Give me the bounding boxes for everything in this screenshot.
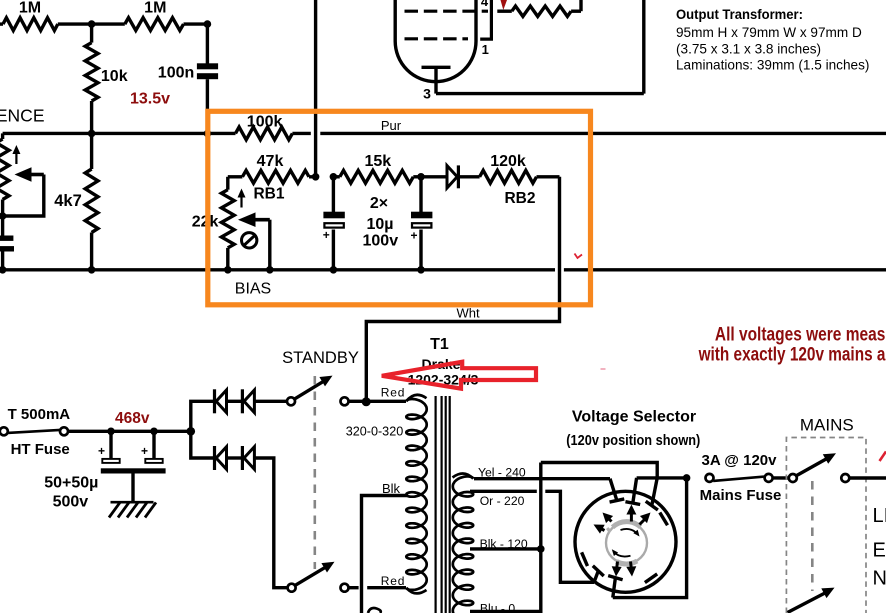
svg-text:Output Transformer:: Output Transformer: (676, 6, 803, 22)
svg-text:Laminations: 39mm (1.5 inches): Laminations: 39mm (1.5 inches) (676, 58, 869, 73)
wire selector right vertical (613, 478, 687, 598)
wire fuse to mains switch (772, 476, 789, 480)
resistor 47k RB1 (228, 175, 243, 178)
transformer core (435, 396, 437, 613)
svg-text:MAINS: MAINS (800, 416, 854, 435)
fuse mains (706, 474, 714, 482)
wire diode rail top (191, 401, 215, 431)
svg-text:Blu - 0: Blu - 0 (480, 602, 515, 613)
capacitor 10u (right) (419, 177, 422, 212)
junction dot selector/fuse (683, 474, 691, 482)
wire HT rail (68, 430, 191, 433)
pot REF up arrow (15, 150, 17, 164)
svg-text:BIAS: BIAS (235, 281, 271, 298)
wire tube-grid drop to bias node (314, 0, 317, 177)
selector pin2 (633, 478, 637, 503)
capacitor left-edge (0, 236, 13, 241)
svg-text:Red: Red (381, 574, 405, 588)
BIAS group orange box (208, 111, 591, 304)
svg-text:+: + (410, 229, 417, 243)
svg-text:15k: 15k (364, 153, 391, 170)
wire Pur rail (3, 132, 236, 135)
wire Yel-240 (474, 477, 610, 480)
svg-text:100k: 100k (247, 114, 283, 131)
diode bias (421, 175, 447, 178)
junction dot Blk-120 (537, 545, 545, 553)
svg-text:320-0-320: 320-0-320 (346, 425, 403, 439)
wire Red1 lead (370, 400, 406, 403)
selector ring dashes (660, 512, 668, 525)
svg-text:2×: 2× (370, 195, 388, 212)
svg-text:+: + (141, 444, 148, 458)
svg-text:1M: 1M (19, 0, 41, 17)
node junction top 100n (204, 20, 212, 28)
capacitor 50+50u (109, 431, 112, 458)
diode D1 (213, 389, 216, 413)
switch standby pole1 (287, 397, 295, 405)
svg-text:1M: 1M (144, 0, 166, 17)
selector rotor arrows (630, 511, 633, 522)
svg-text:STANDBY: STANDBY (282, 349, 359, 367)
svg-text:RB2: RB2 (504, 190, 535, 207)
junction dot Pur/100n (under orange) (204, 130, 212, 138)
selector pin1 (Yel) (610, 479, 617, 501)
svg-text:3: 3 (423, 86, 431, 102)
svg-text:+: + (323, 228, 330, 242)
wire pin3 to right frame (436, 92, 644, 95)
wire cap to ground (131, 474, 134, 502)
wire Or-220 (470, 490, 537, 493)
svg-text:Blk - 120: Blk - 120 (480, 537, 528, 551)
svg-text:HT Fuse: HT Fuse (11, 441, 70, 458)
wire diode rail bottom (191, 431, 215, 458)
pot 22k wiper arrow (254, 218, 270, 222)
svg-text:Red: Red (381, 386, 405, 400)
red tick in bias box (575, 254, 583, 259)
svg-text:Wht: Wht (456, 305, 480, 320)
svg-text:100v: 100v (363, 233, 399, 250)
node wiper/bottom (0, 212, 6, 220)
svg-text:T1: T1 (430, 336, 449, 353)
mains dashed box (786, 438, 866, 613)
wire Blk-120 (470, 547, 541, 550)
junction dot bottom rail (330, 266, 338, 274)
svg-text:10k: 10k (101, 68, 128, 85)
svg-text:EARTH: EARTH (873, 540, 886, 562)
svg-text:1: 1 (482, 42, 489, 57)
resistor 120k RB2 (480, 170, 537, 183)
gang dashes standby (313, 376, 316, 569)
switch standby pole2 (288, 584, 296, 592)
diode D2 (241, 389, 244, 413)
tube cathode (422, 66, 451, 69)
junction dots HT (107, 428, 115, 436)
resistor 100k (236, 127, 293, 140)
svg-text:Voltage Selector: Voltage Selector (572, 408, 696, 425)
pot 22k up arrow (240, 194, 242, 208)
wire selector top (541, 463, 657, 478)
selector rotor inner circle (606, 522, 647, 563)
ground chassis (111, 501, 154, 504)
tube grid1 dashed (405, 10, 489, 13)
selector rotation arrows (621, 529, 639, 535)
svg-text:50+50µ: 50+50µ (44, 475, 98, 492)
svg-text:with exactly 120v mains applie: with exactly 120v mains applied (698, 344, 886, 365)
fuse HT (0, 427, 8, 435)
potentiometer REF (left edge) (1, 133, 4, 139)
wire selector left vertical (539, 463, 542, 613)
wire standby to T1 (348, 400, 363, 403)
svg-text:NEUT: NEUT (873, 568, 886, 590)
svg-text:All voltages were measured: All voltages were measured (715, 325, 886, 346)
junction dot T1 red (362, 397, 371, 406)
junction dot bottom rail (417, 266, 425, 274)
red tick mains corner (880, 452, 886, 462)
node junction top-left (88, 20, 96, 28)
svg-text:100n: 100n (158, 65, 194, 82)
resistor R 10k (90, 24, 93, 42)
partial winding curl bottom edge (368, 608, 381, 613)
svg-text:10µ: 10µ (366, 216, 393, 233)
junction dot bias B (330, 173, 338, 181)
diode D3 (213, 446, 216, 470)
resistor 15k (340, 170, 414, 183)
svg-text:RB1: RB1 (253, 185, 284, 202)
red tick near pin4 (501, 0, 508, 10)
wire wiper to bottom rail (268, 220, 271, 270)
svg-text:95mm H x 79mm W x 97mm D: 95mm H x 79mm W x 97mm D (676, 25, 862, 40)
transformer T1 secondary winding (406, 399, 426, 590)
tube grid2 dashed (405, 37, 469, 40)
junction dot bottom rail (266, 266, 274, 274)
svg-text:120k: 120k (490, 153, 526, 170)
potentiometer 22k (226, 177, 229, 190)
junction dot bottom rail (88, 266, 96, 274)
wire Blk center tap (362, 496, 409, 613)
svg-text:Blk: Blk (382, 481, 401, 496)
svg-text:T 500mA: T 500mA (8, 406, 71, 423)
gang dashes mains (811, 481, 814, 591)
svg-text:3A @ 120v: 3A @ 120v (702, 452, 778, 469)
svg-text:22k: 22k (192, 214, 219, 231)
selector rotary circle (575, 491, 676, 592)
wire top rail y=24 (0, 22, 3, 25)
svg-text:(3.75 x 3.1 x 3.8 inches): (3.75 x 3.1 x 3.8 inches) (676, 42, 821, 57)
capacitor 100n (206, 24, 209, 63)
svg-text:Mains Fuse: Mains Fuse (700, 487, 782, 504)
svg-text:4k7: 4k7 (54, 192, 82, 210)
svg-text:500v: 500v (53, 494, 89, 511)
resistor R 1M (left) (3, 18, 58, 31)
svg-text:(120v position shown): (120v position shown) (566, 433, 700, 449)
selector pin3 (652, 478, 657, 506)
pot REF wiper arrow (30, 173, 44, 177)
wire pole2 to Red2 (348, 586, 358, 589)
svg-text:REFERENCE: REFERENCE (0, 106, 45, 126)
junction dot bias A (312, 173, 320, 181)
wire bias bottom rail (0, 268, 555, 271)
svg-text:LIVE: LIVE (873, 505, 886, 527)
wire selector pin2 to fuse (637, 476, 687, 479)
svg-text:13.5v: 13.5v (130, 90, 170, 107)
svg-text:47k: 47k (257, 153, 284, 170)
selector pin7 (0) (613, 578, 616, 598)
svg-text:Or - 220: Or - 220 (480, 494, 525, 508)
junction dot bias C (417, 173, 425, 181)
wire Red2 stub/label (343, 587, 345, 589)
svg-text:4: 4 (481, 0, 489, 9)
svg-text:Yel - 240: Yel - 240 (478, 466, 526, 480)
transformer T1 primary winding (453, 476, 473, 613)
selector pin6 (Or) (594, 571, 598, 582)
wire Wht path (366, 177, 559, 399)
wire Blu-0 (470, 610, 541, 613)
switch mains pole2 (788, 591, 830, 613)
capacitor 10u (left) (332, 177, 335, 212)
svg-text:468v: 468v (115, 410, 150, 427)
wire REF wiper to bottom (3, 175, 44, 217)
diode D4 (241, 446, 244, 470)
red annotation arrow over T1 (382, 362, 536, 389)
wire mains out (849, 476, 886, 479)
tube pin1 bracket (480, 0, 491, 39)
wire pin4 grid resistor (497, 9, 512, 12)
svg-text:Pur: Pur (381, 118, 402, 133)
trimmer symbol (242, 233, 257, 248)
svg-text:+: + (98, 444, 105, 458)
switch mains pole1 (789, 474, 797, 482)
junction dot bottom rail (224, 266, 232, 274)
junction dot Pur/10k (88, 130, 96, 138)
junction dot bottom rail (0, 266, 6, 274)
red dash small (601, 368, 606, 370)
resistor R 1M (right) (125, 18, 184, 31)
tube V1 envelope (395, 0, 476, 82)
resistor 4k7 (90, 133, 93, 169)
